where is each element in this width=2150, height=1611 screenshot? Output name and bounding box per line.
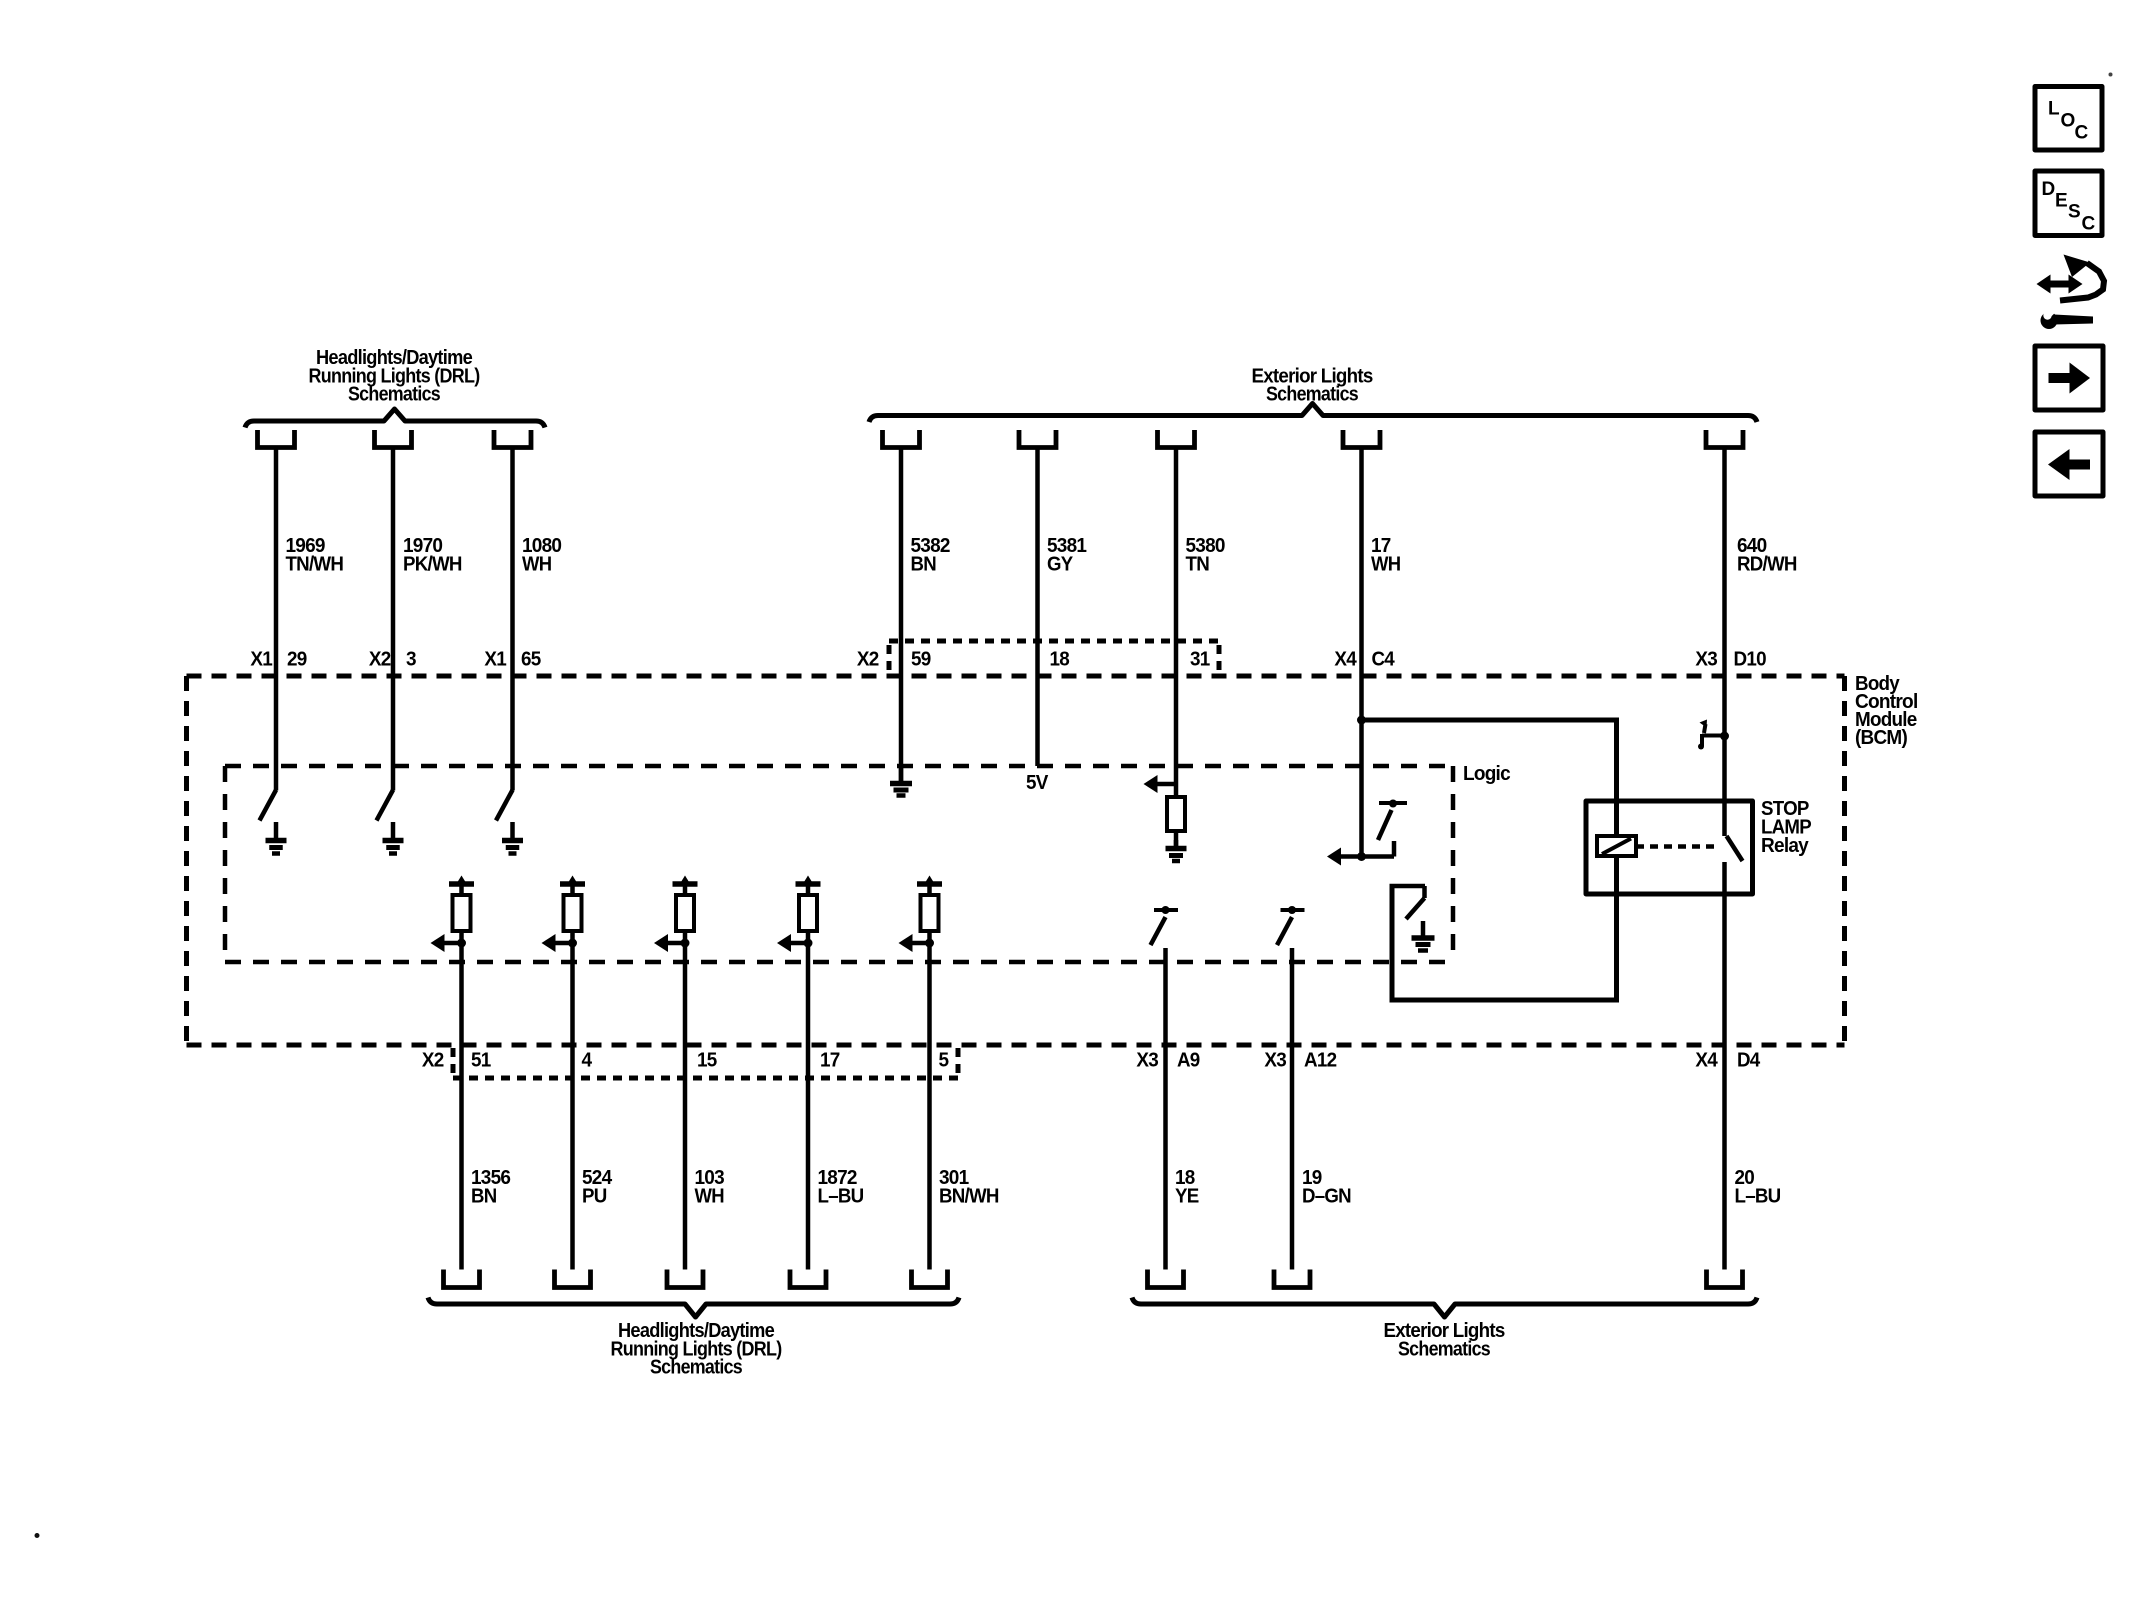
svg-text:17: 17 (820, 1050, 840, 1072)
label: Exterior Lights Schematics (bottom) (1384, 1320, 1506, 1361)
svg-text:L: L (2048, 99, 2060, 120)
switch S9 (logic) (1277, 906, 1305, 945)
pin label X3 A9 (1136, 1050, 1200, 1072)
relay contact blade (1727, 836, 1743, 861)
label: Body Control Module (BCM) (1855, 673, 1918, 749)
dotted connector group box (pins 59,18,31) (889, 641, 1219, 674)
connector terminal T4 (883, 430, 920, 448)
switch S8 (logic) (1151, 906, 1179, 945)
pin label X2 59 (857, 649, 931, 671)
switch S1 (to ground) (260, 790, 277, 821)
value label: circuit 5382 BN (911, 535, 951, 576)
svg-text:5V: 5V (1026, 772, 1049, 794)
svg-text:D–GN: D–GN (1302, 1186, 1351, 1208)
wire 5381 GY (1035, 447, 1040, 766)
svg-text:O: O (2061, 111, 2076, 132)
connector terminal B5 (912, 1270, 948, 1288)
svg-text:WH: WH (522, 554, 552, 576)
svg-text:C: C (2075, 123, 2089, 144)
pin label X2 51 (422, 1050, 491, 1072)
svg-text:4: 4 (582, 1050, 593, 1072)
svg-text:C: C (2082, 214, 2096, 235)
svg-text:X3: X3 (1695, 649, 1717, 671)
svg-text:A9: A9 (1177, 1050, 1200, 1072)
value label: circuit 1970 PK/WH (403, 535, 462, 576)
connector terminal T5 (1019, 430, 1056, 448)
output driver D2: rail bar (560, 876, 585, 896)
value label: circuit 19 D–GN (1302, 1167, 1351, 1208)
svg-text:D4: D4 (1737, 1050, 1761, 1072)
svg-text:65: 65 (521, 649, 541, 671)
pin label X4 C4 (1334, 649, 1395, 671)
resistor R_D3 (676, 895, 694, 931)
svg-text:59: 59 (911, 649, 931, 671)
svg-text:X1: X1 (250, 649, 272, 671)
svg-text:5: 5 (939, 1050, 949, 1072)
connector terminal B1 (444, 1270, 480, 1288)
value label: circuit 20 L–BU (1735, 1167, 1781, 1208)
svg-text:X2: X2 (422, 1050, 444, 1072)
value label: circuit 5380 TN (1186, 535, 1226, 576)
icon button: LOC (2035, 87, 2102, 151)
svg-text:Logic: Logic (1463, 763, 1511, 785)
speck (scan artifact) top right (2109, 73, 2113, 77)
svg-text:D10: D10 (1734, 649, 1767, 671)
ground G3 (502, 822, 523, 854)
svg-text:BN: BN (471, 1186, 497, 1208)
wire 640 RD/WH (lower, to X4 D4 / 20 L-BU) (1722, 862, 1727, 1270)
wire 5380 TN (1174, 447, 1179, 797)
wire 301 BN/WH (927, 931, 932, 1270)
svg-text:PK/WH: PK/WH (403, 554, 462, 576)
svg-text:X3: X3 (1264, 1050, 1286, 1072)
connector terminal T7 (1343, 430, 1380, 448)
value label: circuit 1356 BN (471, 1167, 511, 1208)
ground G2 (383, 822, 404, 854)
value label: circuit 17 WH (1371, 535, 1401, 576)
resistor R_D5 (921, 895, 939, 931)
svg-text:TN: TN (1186, 554, 1210, 576)
wire 103 WH (683, 931, 688, 1270)
svg-text:D: D (2042, 179, 2056, 200)
svg-text:WH: WH (1371, 554, 1401, 576)
output driver D3: rail bar (673, 876, 698, 896)
arrow (signal out) driver D3 (654, 934, 690, 952)
arrow (signal out) driver D5 (899, 934, 935, 952)
icon button: arrow left (2035, 432, 2103, 496)
connector terminal B2 (555, 1270, 591, 1288)
svg-text:Schematics: Schematics (650, 1357, 743, 1379)
wire 18 YE (1163, 948, 1168, 1270)
svg-text:18: 18 (1050, 649, 1070, 671)
svg-text:C4: C4 (1372, 649, 1396, 671)
resistor R_D2 (564, 895, 582, 931)
value label: circuit 1969 TN/WH (286, 535, 344, 576)
pin label X4 D4 (1695, 1050, 1761, 1072)
Logic dashed box (225, 766, 1453, 962)
svg-text:BN: BN (911, 554, 937, 576)
brace: DRL schematics top (245, 409, 545, 428)
connector terminal B3 (667, 1270, 703, 1288)
icon button: arrow right (2035, 346, 2103, 410)
connector terminal T6 (1158, 430, 1195, 448)
svg-text:15: 15 (697, 1050, 717, 1072)
pin label X3 A12 (1264, 1050, 1337, 1072)
pin label X2 3 (369, 649, 417, 671)
label: STOP LAMP Relay (1761, 798, 1811, 857)
Body Control Module (BCM) dashed box (187, 676, 1845, 1045)
value label: circuit 1872 L–BU (818, 1167, 864, 1208)
ground G4 (5382 BN) (890, 766, 912, 796)
wire 19 D-GN (1290, 948, 1295, 1270)
resistor R_D4 (799, 895, 817, 931)
value label: circuit 301 BN/WH (939, 1167, 999, 1208)
switch S3 (to ground) (496, 790, 513, 821)
value label: circuit 103 WH (695, 1167, 725, 1208)
output driver D5: rail bar (917, 876, 942, 896)
output driver D1: rail bar (449, 876, 474, 896)
splice clip on wire 640 (1698, 720, 1729, 750)
internal driver switch S6 (door) (1390, 886, 1426, 919)
wire 1970 PK/WH (391, 447, 396, 791)
arrow (signal out) driver D4 (777, 934, 813, 952)
svg-text:31: 31 (1190, 649, 1210, 671)
label: Headlights/Daytime Running Lights (DRL) Schematics (bottom) (611, 1320, 782, 1379)
wire 1872 L-BU (806, 931, 811, 1270)
svg-text:L–BU: L–BU (1735, 1186, 1781, 1208)
svg-text:GY: GY (1047, 554, 1074, 576)
brace: Exterior Lights schematics top (869, 404, 1757, 423)
switch S7 (logic, wire 17) (1378, 800, 1407, 857)
connector terminal B6 (1148, 1270, 1184, 1288)
svg-text:A12: A12 (1304, 1050, 1337, 1072)
resistor R_D1 (453, 895, 471, 931)
svg-text:X3: X3 (1136, 1050, 1158, 1072)
svg-text:S: S (2068, 202, 2081, 223)
svg-text:X4: X4 (1334, 649, 1357, 671)
svg-text:X2: X2 (369, 649, 391, 671)
svg-text:YE: YE (1175, 1186, 1199, 1208)
switch S2 (to ground) (377, 790, 394, 821)
icon button: DESC (2035, 171, 2102, 236)
svg-text:WH: WH (695, 1186, 725, 1208)
svg-text:Schematics: Schematics (1398, 1339, 1491, 1361)
wire 524 PU (570, 931, 575, 1270)
wire 1356 BN (459, 931, 464, 1270)
svg-text:29: 29 (287, 649, 307, 671)
connector terminal T3 (494, 430, 531, 448)
node: junction on wire 17 (1357, 716, 1366, 725)
ground G6 (driver) (1412, 921, 1435, 951)
connector terminal T1 (258, 430, 295, 448)
value label: circuit 5381 GY (1047, 535, 1087, 576)
output driver D4: rail bar (796, 876, 821, 896)
svg-text:3: 3 (406, 649, 416, 671)
svg-text:E: E (2055, 191, 2068, 212)
relay actuation dashed link (1636, 844, 1719, 849)
ground G5 (5380) (1166, 840, 1187, 861)
value label: circuit 1080 WH (522, 535, 562, 576)
svg-text:Relay: Relay (1761, 835, 1810, 857)
icon: shortcut (double arrow + wrench) (2037, 255, 2105, 330)
arrow (signal out) driver D2 (542, 934, 578, 952)
connector terminal B4 (790, 1270, 826, 1288)
svg-text:X1: X1 (484, 649, 506, 671)
value label: circuit 18 YE (1175, 1167, 1199, 1208)
wire 640 RD/WH (upper) (1722, 447, 1727, 836)
pin label X1 29 (250, 649, 307, 671)
wire 1080 WH (510, 447, 515, 791)
pin label X3 D10 (1695, 649, 1766, 671)
svg-text:L–BU: L–BU (818, 1186, 864, 1208)
wire 5382 BN (899, 447, 904, 781)
brace: Exterior Lights schematics bottom (1132, 1298, 1757, 1318)
svg-text:Schematics: Schematics (348, 384, 441, 406)
pin label X1 65 (484, 649, 541, 671)
brace: DRL schematics bottom (428, 1298, 959, 1318)
wire 1969 TN/WH (274, 447, 279, 791)
wire: feed from 17 to relay coil (solid loop) (1362, 718, 1620, 1003)
arrow (signal out) on 5380 (1144, 775, 1177, 793)
label: Headlights/Daytime Running Lights (DRL) Schematics (top) (309, 347, 480, 406)
speck (scan artifact) bottom left (35, 1533, 40, 1538)
resistor R1 (5380 pull-down) (1167, 797, 1185, 831)
relay box: STOP LAMP Relay (1586, 801, 1753, 894)
ground G1 (266, 822, 287, 854)
label: Exterior Lights Schematics (top) (1252, 366, 1374, 406)
svg-text:X2: X2 (857, 649, 879, 671)
value label: circuit 524 PU (582, 1167, 613, 1208)
connector terminal B8 (1707, 1270, 1743, 1288)
svg-text:PU: PU (582, 1186, 607, 1208)
wire 17 WH (1359, 447, 1364, 857)
connector terminal T8 (1706, 430, 1743, 448)
svg-text:51: 51 (471, 1050, 491, 1072)
svg-text:RD/WH: RD/WH (1737, 554, 1797, 576)
svg-text:X4: X4 (1695, 1050, 1718, 1072)
svg-text:BN/WH: BN/WH (939, 1186, 999, 1208)
wire resistor to ground (1174, 831, 1179, 846)
value label: circuit 640 RD/WH (1737, 535, 1797, 576)
relay coil K1 (1597, 836, 1636, 856)
connector terminal T2 (375, 430, 412, 448)
connector terminal B7 (1274, 1270, 1310, 1288)
arrow (signal out) on wire 17 (1327, 848, 1394, 866)
svg-text:TN/WH: TN/WH (286, 554, 344, 576)
svg-text:(BCM): (BCM) (1855, 727, 1907, 749)
arrow (signal out) driver D1 (431, 934, 467, 952)
dotted connector group box (pins 51,4,15,17,5) (453, 1048, 958, 1078)
